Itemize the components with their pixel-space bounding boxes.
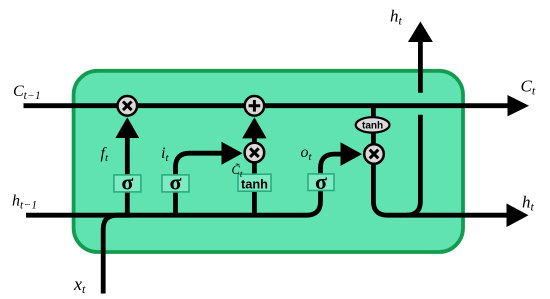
svg-text:tanh: tanh xyxy=(362,120,383,131)
gate box: sigma (output) xyxy=(308,169,334,194)
wire: branch up to top h_t (upper segment above C line) xyxy=(418,42,423,93)
LSTM cell body xyxy=(74,71,463,252)
arrowhead: right C_t output xyxy=(508,95,530,116)
svg-text:tanh: tanh xyxy=(241,176,268,191)
wire: forget-gate branch xyxy=(125,132,130,215)
gate box: sigma (forget) xyxy=(114,170,141,195)
wire: x_t input rising and merging into h line xyxy=(103,215,130,293)
svg-text:σ: σ xyxy=(170,170,182,195)
op circle: add xyxy=(245,96,265,116)
arrowhead: into add circle xyxy=(242,117,266,138)
gate box: tanh (candidate) xyxy=(238,174,271,191)
wire: hidden-state line h (bottom horizontal) with bend up into o-gate xyxy=(26,154,342,215)
arrowhead: into forget multiply xyxy=(115,117,139,138)
gate box: sigma (input) xyxy=(162,170,189,195)
svg-text:ht−1: ht−1 xyxy=(12,193,37,212)
svg-text:σ: σ xyxy=(315,169,327,194)
svg-text:σ: σ xyxy=(121,170,133,195)
svg-text:ht: ht xyxy=(522,193,535,214)
arrowhead: input gate into multiply xyxy=(222,142,243,165)
op circle: output multiply xyxy=(364,144,384,164)
arrowhead: right h_t output xyxy=(507,203,529,227)
op circle: input multiply xyxy=(245,143,265,163)
op circle: forget multiply xyxy=(118,96,138,116)
wire: tanh-of-C branch down from C line and output down-then-right to h_t xyxy=(373,106,508,216)
wire: branch up to top h_t (lower segment, with gap at C line) xyxy=(406,115,420,215)
arrowhead: top h_t output xyxy=(408,22,433,43)
wire: input-gate branch curving right xyxy=(176,153,230,215)
svg-text:Ct: Ct xyxy=(521,77,536,98)
wire: candidate tanh branch xyxy=(252,135,257,215)
svg-text:ht: ht xyxy=(390,7,403,28)
wire: cell-state line C (top horizontal) xyxy=(24,103,510,108)
arrowhead: output gate into multiply xyxy=(341,142,363,166)
op ellipse: tanh of cell state xyxy=(356,117,390,132)
svg-text:xt: xt xyxy=(73,274,86,296)
svg-text:Ct−1: Ct−1 xyxy=(13,83,41,102)
